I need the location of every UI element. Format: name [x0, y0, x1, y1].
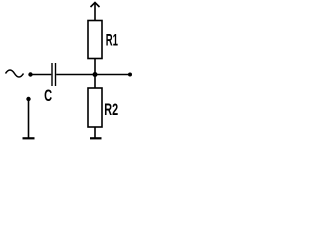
svg-text:R2: R2: [104, 101, 118, 119]
svg-text:C: C: [44, 87, 52, 105]
svg-text:R1: R1: [106, 31, 118, 49]
